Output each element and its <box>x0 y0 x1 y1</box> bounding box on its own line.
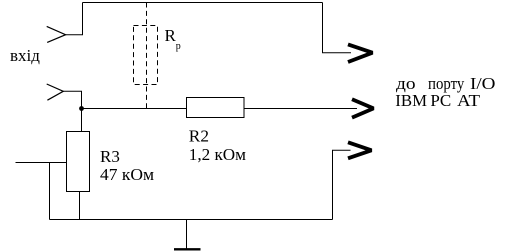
svg-text:R: R <box>165 26 177 45</box>
wire drop from top bus to output 1 <box>323 3 352 53</box>
wire top bus <box>83 2 323 4</box>
connector top input prong <box>47 26 66 42</box>
ground bar <box>174 248 201 250</box>
svg-text:R3: R3 <box>100 147 120 166</box>
svg-text:1,2 кОм: 1,2 кОм <box>189 145 246 164</box>
wire left drop to ground bus <box>49 163 51 220</box>
wire from top input prong up to top bus <box>66 3 83 35</box>
svg-text:IBM: IBM <box>395 91 427 110</box>
wire from R3 bottom to ground bus <box>79 192 81 220</box>
wire ground bus <box>50 219 333 221</box>
resistor R2 <box>187 98 245 118</box>
svg-text:AT: AT <box>457 91 481 110</box>
arrow output 3 <box>348 142 372 158</box>
ground stem <box>186 220 188 250</box>
svg-text:вхід: вхід <box>10 46 40 65</box>
wire rise from ground bus to output 3 <box>333 150 351 219</box>
wire left stub at R3 <box>16 162 68 164</box>
svg-text:47 кОм: 47 кОм <box>100 165 154 184</box>
connector middle input prong <box>47 84 64 100</box>
junction node dot <box>79 106 84 111</box>
svg-text:PC: PC <box>430 91 451 110</box>
svg-text:R2: R2 <box>189 127 209 146</box>
arrow output 2 <box>352 99 374 117</box>
arrow output 1 <box>348 44 373 62</box>
resistor R3 <box>67 132 90 192</box>
wire middle horizontal to output 2 <box>82 108 358 110</box>
svg-text:p: p <box>176 41 181 52</box>
resistor Rp (dashed body) <box>134 26 158 85</box>
wire from middle input prong to junction and down to R3 <box>63 91 81 132</box>
wire dashed vertical through Rp <box>146 3 148 109</box>
